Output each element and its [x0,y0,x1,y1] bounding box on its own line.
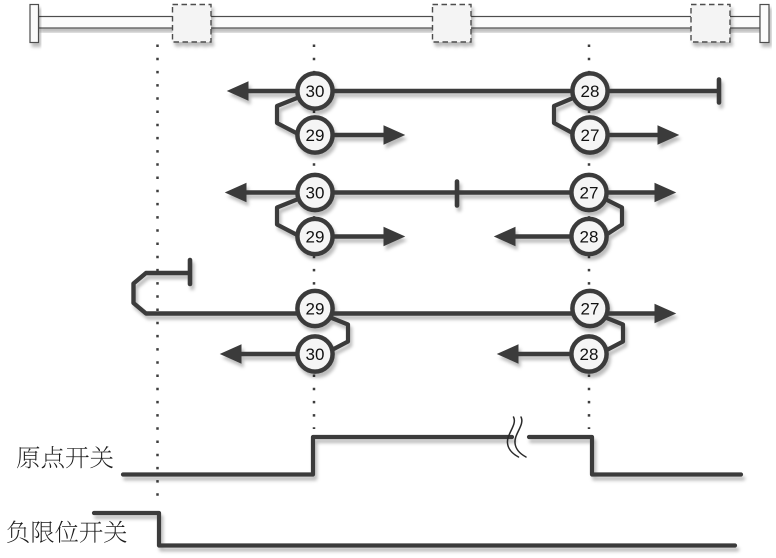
wire: hook 30 to 29 group2 [277,198,302,238]
wire: arrow from 28 group2 (leftward) [511,234,570,238]
rail (linear axis) [39,17,761,29]
arrowhead left group1 [228,82,248,100]
start stop bar group3 [188,260,193,284]
node 28 group2 [571,219,606,254]
wire: hook 30 to 29 [277,96,302,136]
arrowhead left group2 [226,184,246,202]
left end stop [30,5,39,43]
wire: hook 27 to 28 group2 [602,198,622,238]
svg-text:28: 28 [581,82,600,101]
index pulse tick group2 [455,182,460,206]
arrowhead right group2 [655,184,675,202]
switch dog box 3 (positive cam, dashed) [691,5,730,43]
right end stop [760,5,769,43]
svg-text:27: 27 [580,183,599,202]
node 27 group1 [572,117,607,152]
wire: arrow from 30 group3 (leftward) [237,352,296,356]
svg-text:27: 27 [581,299,600,318]
node 30 group1 [297,73,332,108]
home switch waveform [123,437,741,475]
node 28 group1 [572,73,607,108]
node 29 group1 [297,117,332,152]
wire: main travel line group1 [228,73,719,152]
node 30 group3 [297,336,332,371]
node 30 group2 [297,175,332,210]
break symbol on home switch high level [507,417,526,457]
wire: hook 28 to 27 [554,96,578,136]
svg-text:30: 30 [306,82,325,101]
wire: J-hook and main travel line group3 [134,273,660,314]
dotted reference line: home switch rising edge position [313,45,316,430]
label: home switch label 原点开关 [17,446,113,468]
stop bar at right end group1 [717,80,722,103]
dotted reference line: home switch falling edge position [588,45,591,430]
switch dog box 2 (home cam, dashed) [433,5,472,43]
negative limit switch waveform [94,513,735,546]
wire: arrow from 29 [334,133,388,137]
dotted reference line: negative limit switch position [156,45,159,505]
svg-text:30: 30 [306,183,325,202]
wire: hook 29 to 30 group3 [328,317,348,353]
arrowhead right group3 [655,305,675,323]
node 29 group3 [297,291,332,326]
svg-text:29: 29 [306,227,325,246]
svg-text:27: 27 [581,126,600,145]
node 27 group3 [572,291,607,326]
label: negative limit switch label 负限位开关 [7,520,126,543]
svg-text:29: 29 [306,126,325,145]
svg-text:28: 28 [580,227,599,246]
svg-text:29: 29 [306,299,325,318]
switch dog box 1 (negative limit cam, dashed) [173,5,212,43]
wire: arrow from 28 group3 (leftward) [514,352,570,356]
svg-text:28: 28 [580,345,599,364]
svg-text:30: 30 [306,345,325,364]
wire: arrow from 27 [609,133,662,137]
node 29 group2 [297,219,332,254]
node 28 group3 [571,336,606,371]
wire: arrow from 29 group2 [334,234,388,238]
wire: hook 27 to 28 group3 [603,317,623,353]
node 27 group2 [571,175,606,210]
wire: main travel line group2 [242,190,659,194]
